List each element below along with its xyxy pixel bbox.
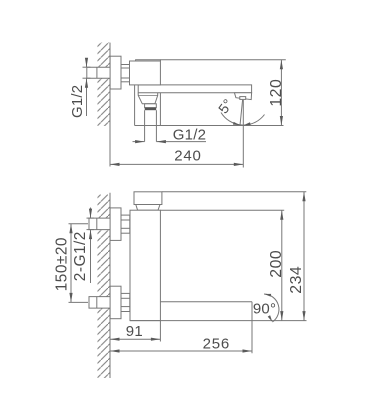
bottom escutcheon — [110, 286, 121, 319]
wall face line (bottom view) — [109, 193, 111, 378]
pipe thread division line — [96, 67, 98, 78]
svg-text:90°: 90° — [253, 301, 276, 318]
extension stubs at pipe corners — [83, 66, 91, 68]
faucet body (top view) — [130, 61, 161, 85]
234 extension from cap top — [162, 191, 306, 193]
svg-text:234: 234 — [288, 266, 305, 294]
dimension line 120 — [280, 60, 282, 126]
spout end vertical + extension to 256 — [251, 302, 253, 353]
escutcheon flange — [110, 56, 121, 89]
aerator housing at spout end — [234, 93, 251, 100]
wall hatching (bottom view) — [98, 195, 111, 379]
120 top extension line from body lid — [160, 59, 285, 61]
5 deg tilted stream line — [240, 100, 243, 126]
svg-text:200: 200 — [268, 250, 285, 278]
outlet collar under body — [138, 93, 158, 104]
body right edge extension down to 91 — [159, 321, 161, 342]
256 dimension line — [110, 350, 252, 352]
150+-20 dimension line — [70, 224, 72, 303]
svg-text:256: 256 — [203, 336, 230, 353]
reference line (bottom of 120) — [135, 125, 284, 127]
5 deg arc — [221, 113, 265, 126]
body right edge extension below spout — [159, 93, 161, 126]
arrowheads — [85, 58, 88, 68]
cap neck — [136, 205, 160, 211]
svg-text:G1/2: G1/2 — [173, 127, 206, 144]
240 dimension line — [110, 163, 243, 165]
svg-text:120: 120 — [268, 79, 285, 107]
svg-text:5°: 5° — [215, 96, 236, 117]
top escutcheon — [110, 208, 121, 241]
2-G1/2 dim line — [90, 208, 92, 219]
aerator slot — [240, 97, 246, 100]
wall face line — [109, 43, 111, 167]
G1/2 inlet pipe through wall — [87, 67, 111, 78]
bottom wall nut — [121, 293, 130, 311]
handle cap on body top — [134, 192, 162, 205]
90 deg arc — [264, 294, 279, 322]
91 dimension line — [110, 338, 160, 340]
200 extension from body top — [160, 209, 284, 211]
wall hatching (top view) — [98, 43, 111, 126]
outlet ring — [145, 104, 157, 108]
200 dimension line — [281, 210, 283, 320]
spout (plan view) top line — [160, 301, 252, 303]
svg-text:91: 91 — [126, 323, 143, 340]
hose lines — [144, 110, 146, 141]
bottom inlet pipe — [89, 297, 111, 309]
top wall nut — [121, 215, 130, 233]
extension stubs at top pipe corners — [87, 217, 95, 219]
vertical from body bottom to reference line — [134, 85, 136, 126]
body lid step — [136, 60, 161, 61]
G1/2 dim line (hose) — [133, 141, 145, 143]
spout bar (side view) — [138, 85, 251, 93]
svg-text:240: 240 — [174, 148, 201, 165]
faucet body column (plan) — [130, 210, 160, 320]
svg-text:150±20: 150±20 — [53, 237, 70, 291]
stream vertical / extension to 240 — [242, 100, 244, 168]
svg-text:G1/2: G1/2 — [69, 85, 86, 118]
150 extension lines at pipe centers — [69, 223, 89, 225]
top inlet pipe — [89, 218, 111, 230]
wall nut — [121, 65, 130, 82]
outlet dark gap — [145, 108, 157, 111]
bottom line of view extended right — [130, 320, 307, 322]
svg-text:2-G1/2: 2-G1/2 — [72, 231, 89, 281]
234 dimension line — [303, 192, 305, 321]
G1/2 dim line (wall pipe) — [86, 60, 88, 68]
